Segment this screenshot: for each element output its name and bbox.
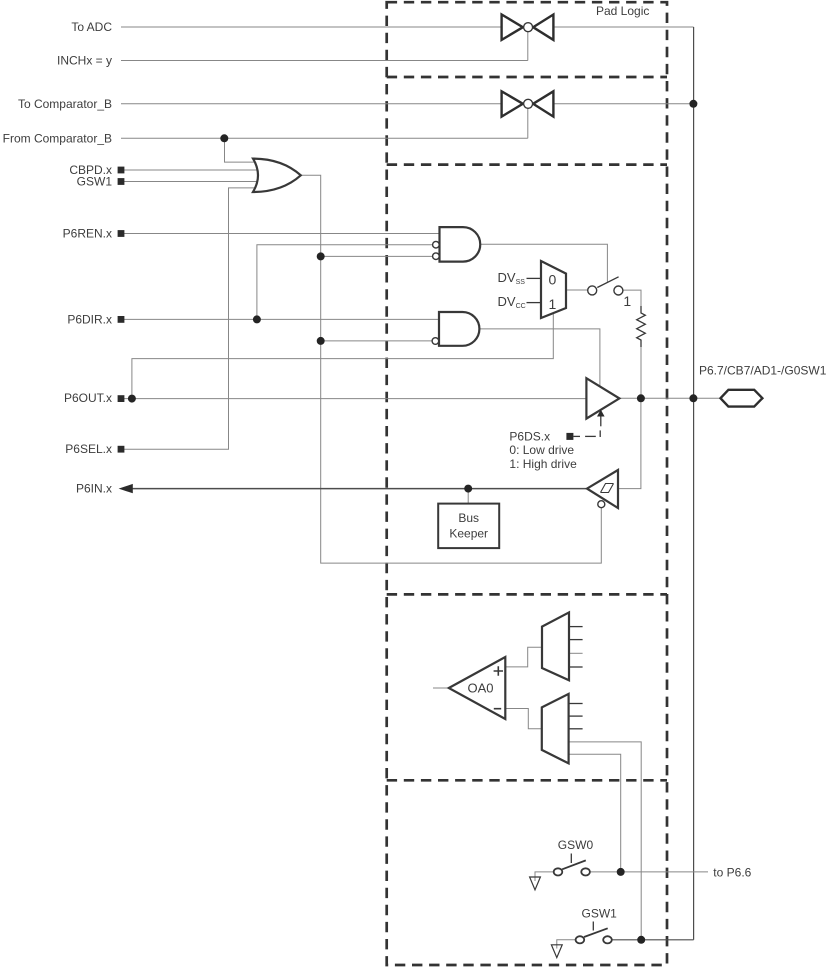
terminal P6DS.x	[566, 433, 573, 440]
wire GSW0 to ground	[535, 872, 554, 881]
pad P6.7	[721, 390, 763, 407]
terminal P6OUT.x	[118, 395, 125, 402]
svg-text:From Comparator_B: From Comparator_B	[3, 131, 112, 145]
wire From Comparator_B	[121, 108, 528, 138]
terminal P6DIR.x	[118, 316, 125, 323]
analog switch T1 (To ADC)	[502, 15, 554, 40]
svg-text:To ADC: To ADC	[71, 20, 112, 34]
wire OA0 minus input	[505, 709, 542, 729]
switch GSW0	[554, 838, 594, 875]
svg-text:OA0: OA0	[468, 681, 494, 696]
wire resistor to pad node	[640, 347, 642, 398]
svg-text:P6OUT.x: P6OUT.x	[64, 391, 112, 405]
wire rail branch to U3	[321, 340, 432, 342]
svg-text:P6.7/CB7/AD1-/G0SW1: P6.7/CB7/AD1-/G0SW1	[699, 364, 826, 378]
wire mux M3 to GSW1 node	[569, 742, 642, 940]
wire OR output rail	[301, 175, 602, 563]
svg-text:0: Low drive: 0: Low drive	[509, 443, 574, 457]
svg-text:P6REN.x: P6REN.x	[63, 227, 112, 241]
and-gate U2	[433, 227, 481, 262]
svg-text:P6SEL.x: P6SEL.x	[65, 442, 112, 456]
wire GSW1 input	[121, 181, 262, 183]
wire comparator switch to right rail	[553, 103, 693, 105]
junction GSW1	[637, 936, 645, 944]
svg-text:P6DIR.x: P6DIR.x	[67, 312, 112, 326]
switch GSW1	[576, 907, 618, 944]
junction GSW0	[617, 868, 625, 876]
svg-text:GSW1: GSW1	[77, 175, 113, 189]
dashed divider 4	[387, 779, 667, 782]
wire node A to OR input 1	[225, 138, 259, 162]
svg-text:GSW1: GSW1	[582, 907, 618, 921]
wire right rail	[693, 27, 695, 940]
wire mux M2 stub 4	[569, 666, 583, 668]
mux M1	[541, 261, 566, 318]
svg-text:DVSS: DVSS	[498, 270, 526, 286]
junction bus keeper	[464, 485, 472, 493]
pad logic dashed box	[387, 2, 667, 965]
dashed divider 3	[387, 593, 667, 596]
wire driver output to pad	[619, 397, 720, 399]
svg-text:Pad Logic: Pad Logic	[596, 4, 649, 18]
svg-text:GSW0: GSW0	[558, 838, 594, 852]
schmitt trigger U5	[587, 470, 618, 508]
dashed divider 2	[387, 163, 667, 166]
wire P6OUT.x	[121, 398, 586, 400]
svg-text:INCHx = y: INCHx = y	[57, 54, 112, 68]
ground GSW0	[530, 877, 541, 890]
wire mux M2 stub 3	[569, 652, 583, 654]
junction pad node rail	[689, 394, 697, 402]
wire P6REN.x	[121, 233, 440, 235]
wire GSW0 to P6.6	[590, 871, 708, 873]
output driver buffer U4	[586, 378, 619, 418]
wire mux select from P6OUT	[132, 313, 553, 398]
drive strength arrow	[597, 410, 605, 427]
wire To Comparator_B	[121, 103, 502, 105]
wire CBPD.x	[121, 169, 262, 171]
terminal P6REN.x	[118, 230, 125, 237]
wire mux M3 stub 2	[569, 715, 583, 717]
wire DVss stub	[527, 277, 542, 279]
terminal GSW1	[118, 178, 125, 185]
wire P6DIR.x	[121, 318, 439, 320]
terminal P6SEL.x	[118, 446, 125, 453]
wire ADC switch to right rail	[553, 26, 693, 28]
svg-text:Keeper: Keeper	[449, 526, 488, 540]
wire DVcc stub	[527, 302, 542, 304]
wire switch to resistor	[623, 290, 641, 306]
P6DS dashed control wire	[573, 430, 600, 437]
svg-text:to P6.6: to P6.6	[713, 866, 751, 880]
wire P6IN.x	[119, 484, 587, 493]
wire P6DIR branch to U2	[257, 245, 433, 320]
mux M3	[542, 694, 569, 764]
junction rail to U2	[317, 252, 325, 260]
svg-text:1: 1	[623, 293, 631, 309]
svg-text:Bus: Bus	[458, 511, 479, 525]
svg-text:To Comparator_B: To Comparator_B	[18, 97, 112, 111]
svg-text:DVCC: DVCC	[498, 294, 526, 310]
ground GSW1	[551, 945, 562, 958]
mux M2	[542, 612, 569, 680]
wire P6SEL.x to OR input 4	[121, 188, 257, 449]
wire OA0 output stub	[433, 687, 449, 689]
wire bus keeper stub	[467, 489, 469, 504]
bus keeper U6	[438, 504, 499, 548]
svg-text:1: High drive: 1: High drive	[509, 457, 577, 471]
wire rail branch to U2	[321, 255, 433, 257]
wire mux output	[566, 289, 588, 291]
junction pad node resistor	[637, 394, 645, 402]
wire U2 output to switch	[480, 244, 607, 282]
junction rail to U3	[317, 337, 325, 345]
terminal CBPD.x	[118, 167, 125, 174]
wire mux M3 stub 3	[569, 728, 583, 730]
resistor R1	[637, 306, 646, 347]
or-gate U1	[253, 159, 301, 192]
wire pad to schmitt input	[618, 398, 641, 488]
wire GSW1 to ground	[557, 940, 576, 949]
wire To ADC	[121, 26, 502, 28]
wire mux M3 to GSW0 node	[569, 754, 621, 872]
op-amp OA0	[449, 657, 506, 719]
svg-text:P6DS.x: P6DS.x	[509, 430, 550, 444]
svg-text:P6IN.x: P6IN.x	[76, 482, 112, 496]
junction From Comparator_B	[220, 134, 228, 142]
switch S1 (pull resistor enable)	[588, 277, 623, 295]
junction P6OUT	[128, 395, 136, 403]
wire GSW1 to right rail	[612, 939, 694, 941]
svg-text:1: 1	[549, 296, 557, 312]
analog switch T2 (To Comparator_B)	[502, 91, 554, 116]
wire OA0 plus input	[505, 647, 542, 667]
wire INCHx control	[121, 32, 528, 61]
and-gate U3	[432, 312, 479, 346]
wire mux M2 stub 1	[569, 626, 583, 628]
wire mux M2 stub 2	[569, 639, 583, 641]
junction P6DIR	[253, 315, 261, 323]
junction comparator rail	[689, 100, 697, 108]
wire mux M3 stub 1	[569, 703, 583, 705]
dashed divider 1	[387, 76, 667, 79]
svg-text:0: 0	[549, 272, 557, 288]
wire U3 output to driver enable	[480, 329, 600, 387]
